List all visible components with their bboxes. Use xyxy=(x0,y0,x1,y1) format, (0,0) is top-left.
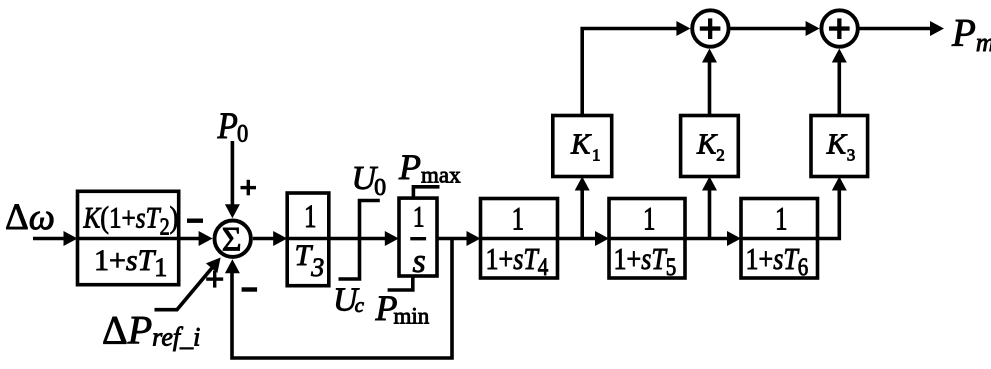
wire branch up to K1 xyxy=(580,189,584,239)
limiter mark Pmin xyxy=(388,276,413,290)
svg-text:1: 1 xyxy=(512,201,525,237)
svg-text:2: 2 xyxy=(716,145,725,164)
block integrator 1/s xyxy=(399,198,437,280)
arrowhead into 1/T3 xyxy=(273,231,287,246)
wire adder1 to adder2 xyxy=(730,27,807,31)
svg-text:K: K xyxy=(696,129,718,161)
wire K1 to adder1 xyxy=(582,29,678,116)
svg-text:s: s xyxy=(413,243,426,280)
wire 1/(1+sT5) to 1/(1+sT6) xyxy=(685,237,728,241)
svg-text:1: 1 xyxy=(304,199,317,235)
saturation symbol xyxy=(339,201,380,280)
svg-text:1: 1 xyxy=(775,201,788,237)
arrowhead into 1/s xyxy=(385,231,399,246)
plus sign for ΔP_ref_i xyxy=(206,271,223,288)
svg-text:P: P xyxy=(398,147,421,187)
wire P0 drop xyxy=(231,141,235,206)
wire 1/T3 to 1/s xyxy=(329,237,386,241)
wire input from Δω xyxy=(33,237,66,241)
svg-text:max: max xyxy=(421,163,461,188)
svg-text:3: 3 xyxy=(847,145,856,164)
svg-text:Σ: Σ xyxy=(222,221,242,258)
arrowhead output Pm xyxy=(930,21,944,36)
arrowhead into K1 xyxy=(575,177,590,191)
limiter mark Pmax xyxy=(413,187,439,198)
block 1/(1+sT4) xyxy=(481,199,558,281)
svg-text:K: K xyxy=(826,129,848,161)
wire output to Pm xyxy=(860,27,933,31)
block K1 xyxy=(553,116,612,177)
arrowhead P0 into summer top xyxy=(225,204,240,218)
svg-text:K: K xyxy=(570,129,592,161)
arrowhead K2 into adder1 bottom xyxy=(702,49,717,63)
adder1 circle plus xyxy=(692,10,728,46)
block K3 xyxy=(811,116,868,177)
block K2 xyxy=(681,116,739,177)
plus sign for P0 xyxy=(241,180,257,196)
wire ΔP_ref_i diagonal xyxy=(155,267,213,309)
arrowhead into 1/(1+sT5) xyxy=(595,231,609,246)
wire 1/(1+sT6) turn up to K3 xyxy=(818,189,840,239)
wire feedback loop xyxy=(232,239,452,359)
block 1/(1+sT5) xyxy=(609,199,685,281)
block lead-lag K(1+sT2)/(1+sT1) xyxy=(78,191,179,284)
wire branch up to K2 xyxy=(708,189,712,239)
arrowhead into summer left xyxy=(199,231,213,246)
summing junction Σ xyxy=(215,221,251,259)
wire 1/(1+sT4) to 1/(1+sT5) xyxy=(557,237,596,241)
block 1/(1+sT6) xyxy=(741,199,818,281)
arrowhead into K2 xyxy=(702,177,717,191)
wire K2 to adder1 xyxy=(708,61,712,116)
arrowhead into block1 xyxy=(64,231,78,246)
wire summer to 1/T3 xyxy=(253,237,274,241)
minus sign for feedback xyxy=(242,287,258,291)
block 1/T3 xyxy=(287,193,329,286)
wire K3 to adder2 xyxy=(837,61,841,116)
svg-text:1: 1 xyxy=(592,145,601,164)
svg-text:1: 1 xyxy=(643,201,656,237)
arrowhead adder1 into adder2 xyxy=(806,21,820,36)
svg-text:min: min xyxy=(394,303,430,328)
arrowhead into 1/(1+sT4) xyxy=(467,231,481,246)
arrowhead feedback into summer bottom xyxy=(225,259,240,273)
arrowhead K3 into adder2 bottom xyxy=(832,49,847,63)
svg-text:Δω: Δω xyxy=(5,197,55,238)
wire block1 to summer xyxy=(179,237,200,241)
arrowhead ΔP_ref_i into summer xyxy=(206,258,221,274)
adder2 circle plus xyxy=(821,10,857,46)
minus sign at summer left input xyxy=(187,219,203,223)
wire 1/s to 1/(1+sT4) xyxy=(437,237,468,241)
arrowhead K1 into adder1 xyxy=(676,21,690,36)
arrowhead into K3 xyxy=(832,177,847,191)
svg-text:1: 1 xyxy=(413,200,425,233)
arrowhead into 1/(1+sT6) xyxy=(727,231,741,246)
